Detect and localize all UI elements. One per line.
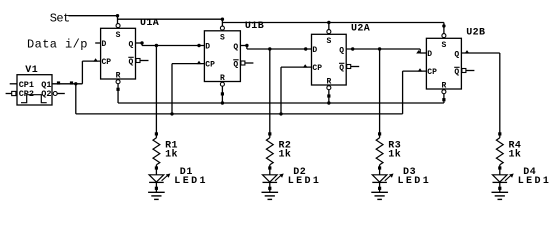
V1 pin CP1 label: [19, 80, 34, 90]
junction R2 top pin: [268, 132, 271, 135]
svg-text:LED1: LED1: [398, 176, 432, 187]
wire R4 to D4: [499, 165, 501, 175]
wire U2A Q jog: [419, 49, 421, 53]
svg-text:Data i/p: Data i/p: [27, 38, 88, 52]
svg-text:1k: 1k: [388, 149, 401, 161]
U1B CP edge arrow: [197, 61, 202, 64]
V1 waveform symbol: [21, 95, 47, 103]
svg-text:Q: Q: [233, 43, 238, 52]
U1B pin D label: [205, 43, 210, 52]
svg-text:Q: Q: [129, 41, 134, 50]
U2B pin S label: [442, 41, 447, 50]
wire D1 to ground: [155, 182, 157, 192]
U1B pin S label: [220, 34, 225, 43]
V1 pin CP2 bubble: [12, 91, 16, 95]
svg-text:Q: Q: [339, 64, 344, 73]
junction R4 bottom pin: [498, 166, 501, 169]
junction Set rail at U1B tap: [221, 18, 224, 21]
U2B pin Qbar label: [454, 68, 459, 77]
V1 pin Q1 label: [41, 80, 51, 90]
wire Set tap to U1A S: [117, 16, 119, 24]
wire D2 to ground: [269, 182, 271, 192]
junction R1 bottom pin: [155, 166, 158, 169]
wire Set tap to U1B S: [221, 19, 223, 26]
U1B pin Qbar overline: [233, 59, 238, 61]
svg-text:R: R: [116, 72, 121, 81]
U1A pin CP label: [102, 58, 112, 67]
LED D4: [493, 175, 508, 183]
U1A pin S label: [116, 31, 121, 40]
junction R1 top pin: [155, 132, 158, 135]
U2B pin Qbar bubble: [462, 69, 466, 73]
junction D1 cathode: [155, 187, 158, 190]
U2B pin Qbar overline: [454, 66, 459, 68]
wire net Q1 to U1B D: [142, 45, 204, 47]
svg-text:R: R: [326, 78, 331, 87]
U1B pin Qbar stub: [245, 62, 253, 64]
svg-text:S: S: [220, 34, 225, 43]
junction reset rail at U2A: [327, 101, 330, 104]
U1A pin Q label: [129, 41, 134, 50]
svg-text:S: S: [116, 31, 121, 40]
LED D3: [372, 175, 387, 183]
U1B label: [245, 21, 264, 32]
wire clock rail: [76, 113, 403, 115]
U1A pin R label: [116, 72, 121, 81]
svg-text:S: S: [442, 41, 447, 50]
junction U1A Q: [140, 41, 143, 44]
wire Set rail segment 1: [69, 15, 118, 17]
U2B Q edge arrow: [465, 50, 470, 53]
junction R3 bottom pin: [378, 166, 381, 169]
R3 label: [388, 141, 401, 152]
junction D4 cathode: [498, 187, 501, 190]
D2 part name LED1: [288, 176, 322, 187]
svg-text:S: S: [326, 37, 331, 46]
wire clock riser U2A: [281, 67, 312, 114]
node Data i/p label: [27, 38, 88, 52]
ground under D1: [148, 192, 165, 199]
V1 pin Q2 bubble: [53, 92, 57, 96]
junction U2A R drop: [327, 94, 330, 97]
V1 pin Q2 label: [41, 89, 51, 99]
wire reset rail: [118, 102, 444, 104]
junction V1 Q1 pin end: [57, 81, 60, 84]
svg-text:R: R: [220, 74, 225, 83]
svg-text:CP: CP: [205, 61, 215, 70]
junction clock rail at U1B riser: [170, 112, 173, 115]
U2A pin Qbar overline: [339, 62, 344, 64]
svg-text:Q: Q: [233, 61, 238, 70]
U2A pin R bubble: [327, 86, 331, 90]
svg-text:Q: Q: [129, 58, 134, 67]
wire U1A Q jog: [141, 43, 143, 46]
U1A pin Qbar bubble: [136, 59, 140, 63]
wire net Q2 to U2A D: [247, 48, 312, 50]
U1B pin CP label: [205, 61, 215, 70]
svg-text:Q2: Q2: [41, 89, 51, 99]
wire clock drop to rail: [75, 84, 77, 114]
flip-flop U1A body: [101, 28, 136, 79]
wire Set tap to U2A S: [328, 23, 330, 30]
U2B pin Q label: [454, 51, 459, 60]
D4 part name LED1: [518, 176, 551, 187]
R2 value 1k: [279, 149, 292, 161]
junction U2B R drop: [442, 98, 445, 101]
U1B pin Qbar label: [233, 61, 238, 70]
svg-text:R: R: [442, 82, 447, 91]
junction reset rail at U1B: [221, 101, 224, 104]
U1A pin S bubble: [116, 24, 120, 28]
node Set label: [50, 12, 70, 26]
R3 value 1k: [388, 149, 401, 161]
wire clock riser U1B: [172, 64, 204, 114]
U2A CP edge arrow: [303, 64, 308, 67]
U2A pin Qbar bubble: [347, 65, 351, 69]
svg-text:U1B: U1B: [245, 21, 264, 32]
wire U2B R drop: [443, 94, 445, 103]
U1A pin Qbar label: [129, 58, 134, 67]
svg-text:LED1: LED1: [288, 176, 322, 187]
U2A pin D label: [312, 46, 317, 55]
junction Set rail at U2A tap: [327, 21, 330, 24]
svg-text:D: D: [102, 40, 107, 49]
U2A label: [351, 23, 370, 34]
D4 emission arrow: [505, 174, 514, 181]
junction R4 top pin: [498, 132, 501, 135]
U1B pin Q label: [233, 43, 238, 52]
wire R2 riser: [269, 49, 271, 138]
junction R2 bottom pin: [268, 166, 271, 169]
R2 label: [279, 141, 292, 152]
wire U2A Q out: [346, 48, 420, 50]
U2B pin R label: [442, 82, 447, 91]
LED D2: [263, 175, 278, 183]
wire U1B Q jog: [246, 46, 248, 50]
junction U1B Q: [245, 44, 248, 47]
V1 label: [25, 65, 38, 76]
junction D2 cathode: [268, 187, 271, 190]
junction U2A Q: [351, 47, 354, 50]
U1B pin R label: [220, 74, 225, 83]
svg-text:U2B: U2B: [466, 27, 485, 38]
svg-text:CP: CP: [102, 58, 112, 67]
U2A pin R label: [326, 78, 331, 87]
U2B CP edge arrow: [418, 68, 423, 71]
U2A pin CP label: [312, 64, 322, 73]
wire U2A R drop: [328, 90, 330, 103]
junction net Q1 at U1B D: [197, 44, 200, 47]
R4 value 1k: [509, 149, 522, 161]
junction Set rail at U1A tap: [116, 14, 119, 17]
junction D3 cathode: [378, 187, 381, 190]
svg-text:1k: 1k: [279, 149, 292, 161]
U2B pin Qbar stub: [466, 70, 474, 72]
D1 label: [180, 167, 193, 178]
U2A pin S label: [326, 37, 331, 46]
wire R3 to D3: [379, 165, 381, 175]
svg-text:Set: Set: [50, 12, 70, 26]
wire U1B R drop: [221, 87, 223, 104]
svg-text:Q: Q: [454, 68, 459, 77]
svg-text:CP: CP: [427, 68, 437, 77]
flip-flop U2A body: [312, 34, 347, 85]
wire Data i/p to U1A D: [95, 42, 100, 44]
U1A label: [140, 18, 159, 29]
junction V1 Q1 clock branch: [74, 82, 77, 85]
ground under D3: [371, 192, 388, 199]
junction U1A R drop: [116, 88, 119, 91]
clock source V1 body: [17, 75, 52, 105]
U2A pin Q label: [339, 47, 344, 56]
U1A pin Qbar overline: [128, 56, 133, 58]
svg-text:CP: CP: [312, 64, 322, 73]
resistor R3: [376, 138, 383, 165]
flip-flop U2B body: [426, 38, 461, 89]
svg-text:U2A: U2A: [351, 23, 370, 34]
U1A pin Qbar stub: [140, 60, 148, 62]
U1A CP edge arrow: [93, 58, 98, 61]
junction net Q2 to R2: [268, 47, 271, 50]
flip-flop U1B body: [204, 31, 240, 82]
wire R2 to D2: [269, 165, 271, 175]
wire V1 Q1 out: [52, 83, 82, 85]
svg-text:1k: 1k: [509, 149, 522, 161]
svg-text:LED1: LED1: [174, 176, 208, 187]
ground under D2: [262, 192, 279, 199]
U1B pin S bubble: [220, 26, 224, 30]
U2B pin CP label: [427, 68, 437, 77]
U2A pin S bubble: [327, 30, 331, 34]
junction net Q2 at U2A D: [304, 47, 307, 50]
wire D3 to ground: [379, 182, 381, 192]
U2B pin S bubble: [442, 34, 446, 38]
V1 pin CP2 stub: [6, 93, 12, 95]
svg-text:1k: 1k: [165, 149, 178, 161]
svg-text:D: D: [312, 46, 317, 55]
D3 label: [403, 167, 416, 178]
V1 pin Q2 stub: [57, 93, 64, 95]
svg-text:U1A: U1A: [140, 18, 159, 29]
resistor R2: [266, 138, 273, 165]
U2B pin D label: [427, 50, 432, 59]
U2A pin Qbar stub: [351, 66, 359, 68]
svg-text:D: D: [427, 50, 432, 59]
D3 emission arrow: [385, 174, 394, 181]
junction net Q1 to R1: [155, 44, 158, 47]
wire U1A R drop: [117, 84, 119, 103]
U1B pin Qbar bubble: [241, 61, 245, 65]
svg-text:Q: Q: [339, 47, 344, 56]
R1 label: [165, 141, 178, 152]
junction U1B R drop: [221, 92, 224, 95]
junction clock rail at U2A riser: [279, 112, 282, 115]
junction Set corner at U2B tap: [442, 24, 445, 27]
D1 emission arrow: [162, 174, 171, 181]
wire Set rail segment 2: [118, 18, 223, 20]
U1A pin D label: [102, 40, 107, 49]
U2A pin Qbar label: [339, 64, 344, 73]
D2 emission arrow: [275, 174, 284, 181]
V1 pin CP2 label: [19, 89, 34, 99]
D3 part name LED1: [398, 176, 432, 187]
svg-text:D: D: [205, 43, 210, 52]
D1 part name LED1: [174, 176, 208, 187]
wire R1 riser: [155, 46, 157, 138]
wire clock riser U1A: [82, 61, 100, 84]
svg-text:V1: V1: [25, 65, 38, 76]
U2B label: [466, 27, 485, 38]
D2 label: [293, 167, 306, 178]
LED D1: [149, 175, 164, 183]
wire R3 riser: [379, 49, 381, 138]
junction V1 Q1 wire joint: [70, 81, 73, 84]
U1A pin R bubble: [116, 80, 120, 84]
wire Set rail segment 3: [222, 22, 444, 24]
resistor R1: [153, 138, 160, 165]
U1B pin R bubble: [220, 82, 224, 86]
wire Set tap to U2B S: [443, 23, 445, 34]
wire U1B Q out: [240, 45, 247, 47]
svg-text:LED1: LED1: [518, 176, 551, 187]
R1 value 1k: [165, 149, 178, 161]
ground under D4: [492, 192, 509, 199]
resistor R4: [496, 138, 503, 165]
junction R3 top pin: [378, 132, 381, 135]
wire net Q3 to U2B D: [420, 52, 426, 54]
wire U2B Q out: [461, 52, 499, 54]
wire R1 to D1: [155, 165, 157, 175]
wire R4 riser: [499, 53, 501, 138]
junction net Q3 to R3: [378, 47, 381, 50]
R4 label: [509, 141, 522, 152]
svg-text:Q: Q: [454, 51, 459, 60]
wire D4 to ground: [499, 182, 501, 192]
U2B pin R bubble: [442, 90, 446, 94]
U2B D edge arrow: [416, 50, 421, 53]
wire clock riser U2B: [403, 71, 427, 114]
wire U1A Q out: [136, 42, 143, 44]
D4 label: [523, 167, 536, 178]
V1 pin CP1 stub: [10, 83, 17, 85]
